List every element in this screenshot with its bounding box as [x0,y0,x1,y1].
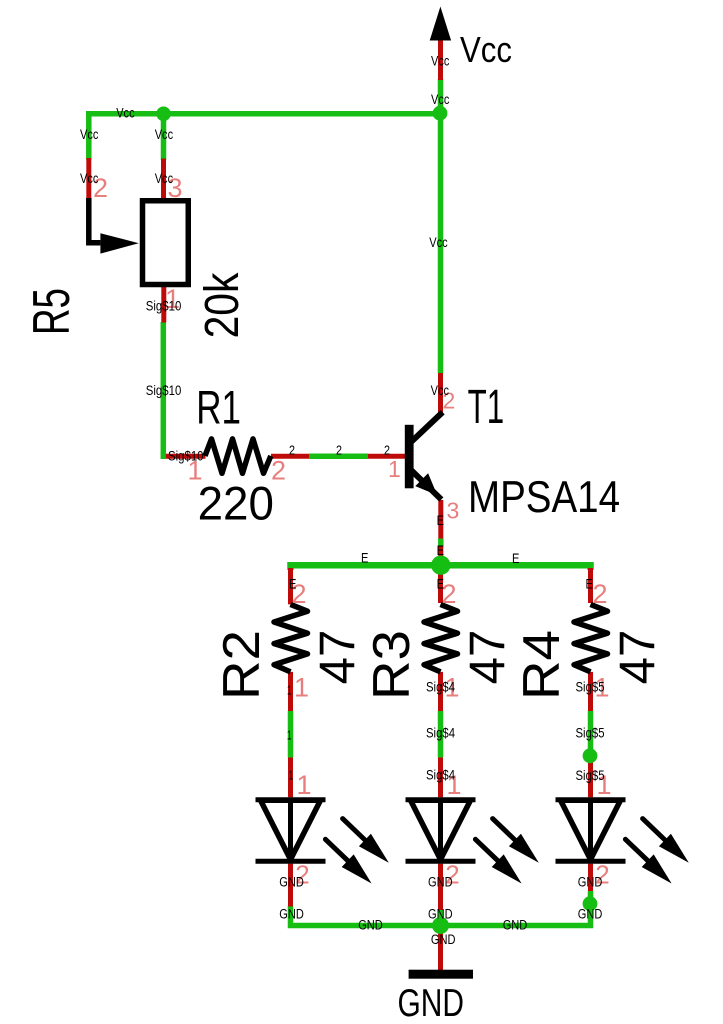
svg-text:R2: R2 [212,630,270,700]
svg-text:GND: GND [428,907,453,922]
svg-text:1: 1 [388,456,401,482]
svg-text:GND: GND [358,918,383,933]
svg-text:GND: GND [503,918,528,933]
svg-text:Vcc: Vcc [80,171,99,186]
svg-text:Vcc: Vcc [80,127,99,142]
svg-text:Sig$5: Sig$5 [576,768,605,783]
svg-text:R1: R1 [196,380,241,433]
svg-text:47: 47 [460,630,516,685]
svg-text:E: E [289,575,296,591]
svg-text:20k: 20k [195,272,249,338]
svg-text:E: E [512,550,519,566]
svg-text:2: 2 [384,443,390,458]
svg-text:R5: R5 [22,288,80,335]
svg-text:GND: GND [279,875,304,890]
svg-text:E: E [437,575,444,591]
svg-text:GND: GND [578,907,603,922]
svg-text:GND: GND [279,907,304,922]
svg-text:Sig$10: Sig$10 [168,449,204,464]
svg-text:Vcc: Vcc [431,54,450,69]
svg-text:Vcc: Vcc [431,383,450,398]
svg-text:Sig$4: Sig$4 [426,726,455,741]
svg-text:Vcc: Vcc [155,127,174,142]
svg-text:GND: GND [578,875,603,890]
svg-text:Sig$10: Sig$10 [146,383,182,398]
svg-text:1: 1 [294,673,309,703]
svg-text:Vcc: Vcc [431,92,450,107]
svg-text:47: 47 [610,630,666,685]
svg-text:1: 1 [289,768,294,783]
svg-text:Vcc: Vcc [116,106,135,121]
svg-text:GND: GND [398,982,465,1024]
svg-text:Sig$5: Sig$5 [576,726,605,741]
svg-text:2: 2 [336,443,342,458]
svg-text:1: 1 [287,728,292,743]
svg-text:E: E [586,575,593,591]
svg-text:Vcc: Vcc [460,29,512,70]
svg-text:220: 220 [198,477,274,530]
svg-text:MPSA14: MPSA14 [468,473,620,522]
svg-text:E: E [361,550,368,566]
svg-text:R4: R4 [512,630,570,700]
svg-text:GND: GND [428,875,453,890]
svg-text:GND: GND [431,932,456,947]
svg-text:T1: T1 [468,381,505,434]
svg-text:2: 2 [289,443,295,458]
svg-text:1: 1 [297,770,312,800]
svg-text:E: E [437,512,444,528]
svg-text:3: 3 [447,498,460,524]
svg-text:R3: R3 [362,630,420,700]
svg-text:Sig$5: Sig$5 [576,680,605,695]
svg-text:E: E [437,542,444,558]
svg-text:Vcc: Vcc [155,171,174,186]
svg-text:2: 2 [593,579,608,609]
svg-text:47: 47 [310,630,366,685]
svg-text:Sig$10: Sig$10 [146,299,182,314]
svg-text:1: 1 [287,683,292,698]
svg-text:Sig$4: Sig$4 [426,768,455,783]
svg-text:Vcc: Vcc [429,235,448,250]
svg-text:Sig$4: Sig$4 [426,680,455,695]
